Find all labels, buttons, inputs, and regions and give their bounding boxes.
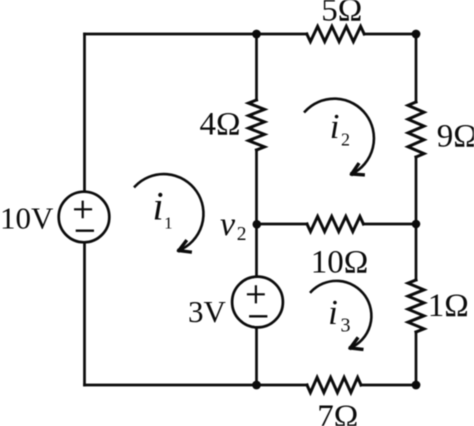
wire bottom-left horizontal bbox=[85, 384, 308, 387]
svg-text:i: i bbox=[153, 184, 164, 229]
node dot bottom middle bbox=[252, 381, 261, 390]
wire left vertical lower (10V source to bottom-left corner) bbox=[83, 242, 86, 385]
svg-text:i: i bbox=[330, 107, 340, 146]
svg-text:1: 1 bbox=[164, 213, 173, 232]
wire middle vertical top (top node to 4-ohm) bbox=[255, 34, 258, 100]
mesh current i1 arc bbox=[135, 174, 204, 250]
node dot middle right bbox=[412, 220, 421, 229]
svg-text:3V: 3V bbox=[188, 294, 227, 329]
wire left vertical upper (top-left corner to 10V source) bbox=[83, 34, 86, 192]
resistor R 10ohm zigzag bbox=[307, 216, 363, 231]
wire top-left horizontal (top node to 5-ohm) bbox=[85, 33, 307, 36]
mesh current i2 arc bbox=[305, 99, 374, 174]
wire middle vertical bottom (3V source to bottom node) bbox=[255, 327, 258, 385]
svg-text:2: 2 bbox=[341, 130, 350, 150]
svg-text:2: 2 bbox=[237, 224, 247, 245]
voltage source V1 10V circle bbox=[59, 192, 110, 243]
wire middle horizontal left (node v2 to 10-ohm) bbox=[257, 223, 308, 226]
resistor R 5ohm zigzag bbox=[307, 26, 364, 41]
wire right vertical bottom (1-ohm to bottom right node) bbox=[415, 332, 418, 385]
arrowhead i1 barbs bbox=[179, 241, 190, 252]
node dot top middle bbox=[252, 30, 261, 39]
node dot v2 bbox=[252, 220, 261, 229]
wire right vertical top (right top node to 9-ohm) bbox=[415, 34, 418, 102]
svg-text:10V: 10V bbox=[0, 201, 54, 236]
svg-text:7Ω: 7Ω bbox=[317, 399, 358, 426]
node dot top right bbox=[412, 30, 421, 39]
mesh current i3 arc bbox=[311, 281, 371, 348]
node dot bottom right bbox=[412, 381, 421, 390]
V1 plus sign bbox=[75, 202, 91, 218]
wire top-right horizontal (5-ohm to right node) bbox=[364, 33, 416, 36]
svg-text:1Ω: 1Ω bbox=[428, 288, 469, 324]
wire middle horizontal right (10-ohm to right node) bbox=[363, 223, 416, 226]
arrowhead i2 barbs bbox=[352, 165, 364, 175]
V2 plus sign bbox=[248, 286, 264, 302]
wire bottom-right horizontal bbox=[361, 384, 416, 387]
resistor R 7ohm zigzag bbox=[307, 377, 361, 392]
wire middle vertical (4-ohm to node v2) bbox=[255, 150, 258, 277]
svg-text:4Ω: 4Ω bbox=[199, 107, 240, 143]
svg-text:i: i bbox=[328, 293, 338, 332]
svg-text:v: v bbox=[220, 206, 236, 243]
V2 minus sign bbox=[250, 315, 266, 317]
resistor R 4ohm zigzag bbox=[249, 100, 265, 150]
resistor R 1ohm zigzag bbox=[408, 280, 424, 332]
voltage source V2 3V circle bbox=[232, 277, 283, 328]
svg-text:9Ω: 9Ω bbox=[437, 118, 474, 154]
svg-text:5Ω: 5Ω bbox=[321, 0, 362, 28]
arrowhead i3 barbs bbox=[350, 339, 362, 350]
svg-text:3: 3 bbox=[341, 315, 351, 337]
resistor R 9ohm zigzag bbox=[408, 102, 424, 157]
wire right vertical middle (9-ohm to 1-ohm) bbox=[415, 157, 418, 280]
svg-text:10Ω: 10Ω bbox=[311, 245, 369, 281]
V1 minus sign bbox=[77, 229, 93, 231]
